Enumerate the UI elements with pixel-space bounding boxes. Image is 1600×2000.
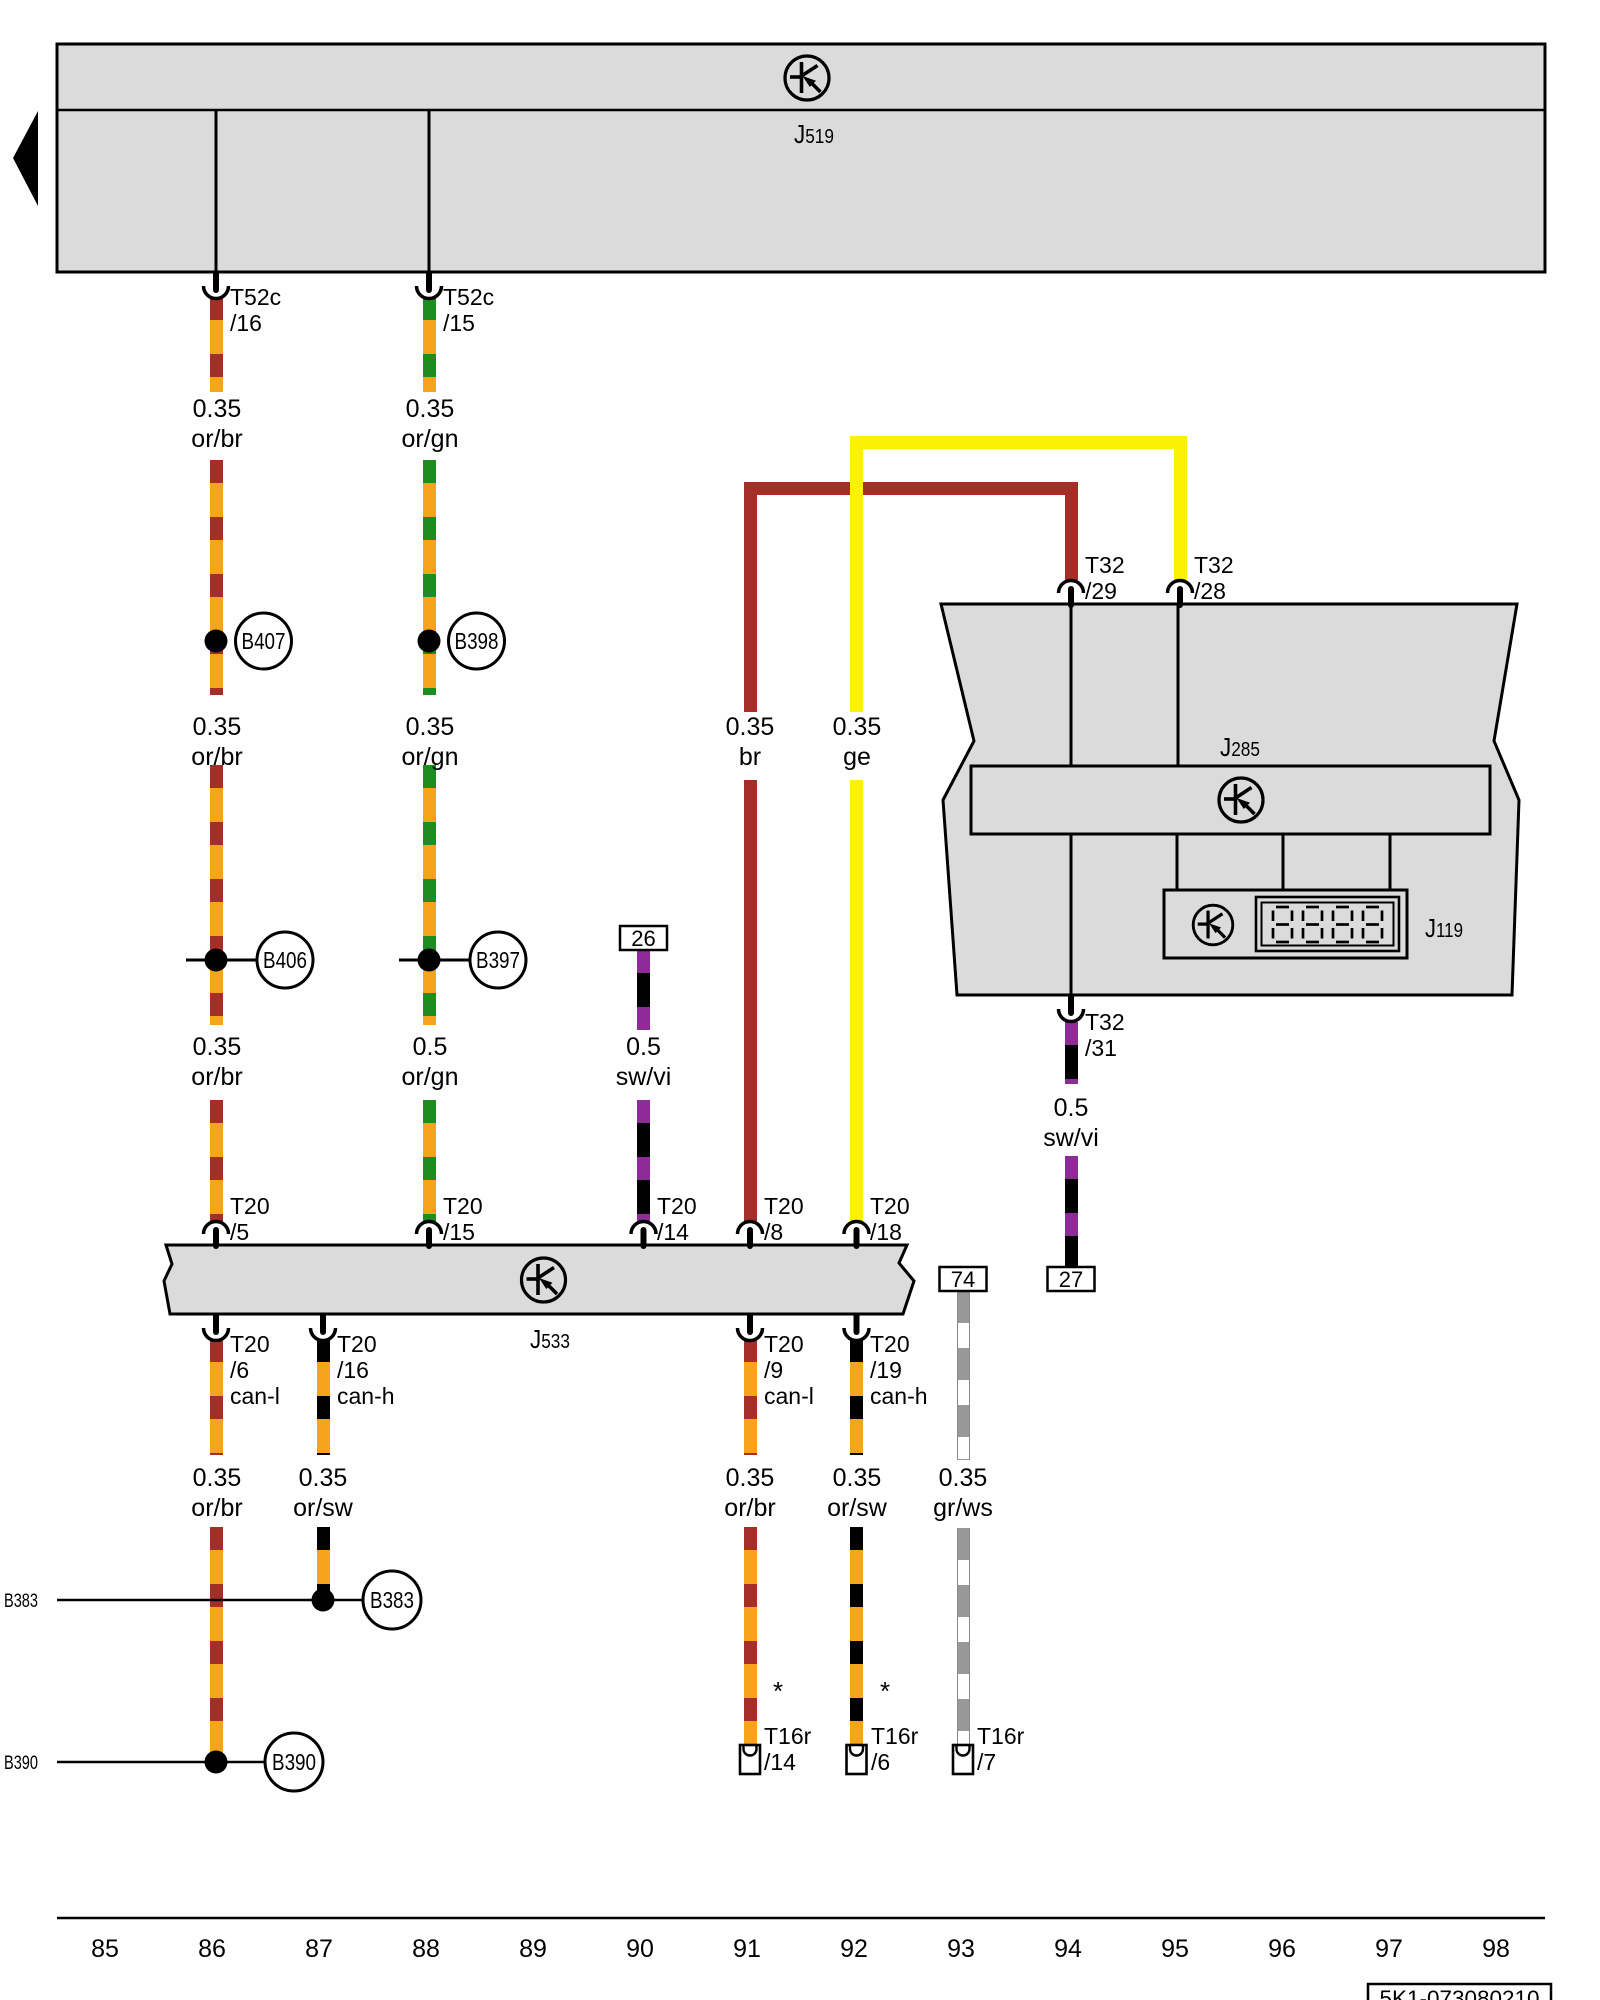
svg-text:B383: B383 [4, 1591, 38, 1612]
svg-text:/15: /15 [443, 310, 475, 336]
icon control-unit symbol J533 [522, 1258, 566, 1302]
svg-text:94: 94 [1054, 1935, 1082, 1963]
connector T20/8 [738, 1222, 763, 1250]
connector T16r/7 [953, 1745, 973, 1774]
svg-text:95: 95 [1161, 1935, 1189, 1963]
svg-text:T32: T32 [1194, 552, 1234, 578]
svg-text:B397: B397 [476, 947, 520, 973]
wire 0.35 or/gn col88 seg1 [423, 297, 436, 392]
svg-text:T20: T20 [870, 1193, 910, 1219]
wire 0.35 br vertical seg1 [744, 482, 757, 713]
svg-text:or/br: or/br [191, 1063, 242, 1091]
svg-text:T16r: T16r [871, 1723, 919, 1749]
svg-text:/29: /29 [1085, 578, 1117, 604]
svg-text:T52c: T52c [230, 284, 281, 310]
svg-text:26: 26 [631, 926, 655, 951]
junction B397 [399, 959, 470, 962]
svg-text:T32: T32 [1085, 1009, 1125, 1035]
bottom track line [57, 1917, 1545, 1920]
svg-text:or/gn: or/gn [402, 1063, 459, 1091]
wire 0.35 or/br col86 seg1 [210, 297, 223, 392]
svg-text:/6: /6 [871, 1749, 890, 1775]
svg-text:T16r: T16r [764, 1723, 812, 1749]
internal wire J285 pin28 down [1177, 604, 1180, 766]
svg-text:/14: /14 [764, 1749, 796, 1775]
wire 0.5 sw/vi col90 seg2 [637, 1100, 650, 1223]
svg-text:74: 74 [951, 1267, 975, 1292]
svg-text:/31: /31 [1085, 1035, 1117, 1061]
svg-text:or/gn: or/gn [402, 743, 459, 771]
svg-text:/16: /16 [230, 310, 262, 336]
wire 0.35 ge vertical right [1174, 436, 1187, 581]
wire 0.35 or/br col86 seg3 [210, 765, 223, 1025]
svg-text:0.35: 0.35 [193, 1033, 242, 1061]
svg-text:B390: B390 [4, 1753, 38, 1774]
connector T20/6 can-l [204, 1313, 229, 1341]
svg-text:/15: /15 [443, 1219, 475, 1245]
svg-text:0.35: 0.35 [299, 1464, 348, 1492]
wire 0.5 sw/vi col94 seg1 [1065, 1022, 1078, 1084]
junction B398 [418, 630, 441, 653]
internal wire J285 pin29 down [1070, 604, 1073, 766]
wire 0.35 or/br col86 seg4 [210, 1100, 223, 1223]
svg-text:27: 27 [1059, 1267, 1083, 1292]
display unit J119 multifunction display [1164, 890, 1407, 958]
svg-text:88: 88 [412, 1935, 440, 1963]
svg-text:or/sw: or/sw [827, 1494, 888, 1522]
svg-text:or/br: or/br [724, 1494, 775, 1522]
internal stubs to J119 [1176, 834, 1179, 891]
svg-text:91: 91 [733, 1935, 761, 1963]
svg-text:T20: T20 [443, 1193, 483, 1219]
svg-text:T20: T20 [764, 1193, 804, 1219]
terminal box 27 [1048, 1267, 1095, 1291]
svg-text:87: 87 [305, 1935, 333, 1963]
connector T20/16 can-h [311, 1313, 336, 1341]
connector T52c/15 [417, 271, 442, 299]
terminal box 26 [620, 926, 667, 950]
svg-text:T20: T20 [657, 1193, 697, 1219]
svg-text:96: 96 [1268, 1935, 1296, 1963]
icon control-unit symbol J285 [1219, 778, 1263, 822]
svg-text:0.35: 0.35 [193, 713, 242, 741]
junction B407 [205, 630, 228, 653]
svg-text:*: * [773, 1676, 783, 1706]
svg-text:or/sw: or/sw [293, 1494, 354, 1522]
direction arrow left [13, 111, 38, 206]
wire 0.35 gr/ws seg2 [957, 1528, 970, 1745]
svg-text:0.35: 0.35 [193, 395, 242, 423]
svg-text:0.5: 0.5 [413, 1033, 448, 1061]
svg-text:T20: T20 [337, 1331, 377, 1357]
svg-text:sw/vi: sw/vi [616, 1063, 672, 1091]
drawing number label 5K1-073080210 [1368, 1984, 1551, 2000]
svg-text:0.5: 0.5 [626, 1033, 661, 1061]
connector T20/9 can-l [738, 1313, 763, 1341]
svg-text:5K1-073080210: 5K1-073080210 [1380, 1986, 1540, 2000]
svg-text:or/br: or/br [191, 743, 242, 771]
connector T32/28 [1168, 581, 1193, 609]
wire 0.35 or/sw can-h seg1 [317, 1339, 330, 1455]
svg-text:0.35: 0.35 [406, 713, 455, 741]
svg-text:/18: /18 [870, 1219, 902, 1245]
wire 0.35 or/sw can-h seg2 [317, 1527, 330, 1600]
svg-text:B407: B407 [242, 628, 286, 654]
svg-text:gr/ws: gr/ws [933, 1494, 993, 1522]
icon control-unit symbol J119 [1193, 905, 1233, 945]
wire 0.35 or/gn col88 seg2 [423, 460, 436, 695]
svg-text:T20: T20 [764, 1331, 804, 1357]
svg-text:*: * [880, 1676, 890, 1706]
connector T32/29 [1059, 581, 1084, 609]
svg-text:can-h: can-h [337, 1383, 395, 1409]
svg-text:sw/vi: sw/vi [1043, 1124, 1099, 1152]
svg-text:can-h: can-h [870, 1383, 928, 1409]
svg-text:T52c: T52c [443, 284, 494, 310]
wire 0.35 or/gn col88 seg3 [423, 765, 436, 1025]
svg-text:can-l: can-l [230, 1383, 280, 1409]
connector T16r/14 [740, 1745, 760, 1774]
junction B406 [186, 959, 257, 962]
svg-text:or/br: or/br [191, 1494, 242, 1522]
svg-text:0.35: 0.35 [406, 395, 455, 423]
svg-text:/16: /16 [337, 1357, 369, 1383]
wire 0.35 or/br can-l col91 seg1 [744, 1339, 757, 1455]
connector T52c/16 [204, 271, 229, 299]
svg-text:0.35: 0.35 [726, 1464, 775, 1492]
wire 0.35 ge vertical seg2 [850, 780, 863, 1223]
svg-text:0.35: 0.35 [726, 713, 775, 741]
connector T16r/6 [847, 1745, 867, 1774]
wire drop inside J519 to T52c/15 [428, 110, 431, 271]
svg-text:B406: B406 [263, 947, 307, 973]
connector T20/19 can-h [844, 1313, 869, 1341]
svg-text:T20: T20 [870, 1331, 910, 1357]
svg-text:ge: ge [843, 743, 871, 771]
wire 0.35 br vertical seg2 [744, 780, 757, 1223]
connector T20/14 [631, 1222, 656, 1250]
svg-text:/19: /19 [870, 1357, 902, 1383]
wire 0.35 br horizontal run [744, 482, 1078, 495]
svg-text:/6: /6 [230, 1357, 249, 1383]
gateway J533 data bus diagnostic interface box [164, 1245, 914, 1314]
connector T20/5 [204, 1222, 229, 1250]
wire 0.35 or/sw can-h col92 seg2 [850, 1527, 863, 1745]
control module J519 (onboard supply control unit) box [57, 44, 1545, 272]
connector T20/15 [417, 1222, 442, 1250]
svg-text:T16r: T16r [977, 1723, 1025, 1749]
svg-text:T32: T32 [1085, 552, 1125, 578]
svg-text:/5: /5 [230, 1219, 249, 1245]
svg-text:or/br: or/br [191, 425, 242, 453]
svg-text:93: 93 [947, 1935, 975, 1963]
icon control-unit symbol J519 [785, 56, 829, 100]
wire 0.5 or/gn col88 seg4 [423, 1100, 436, 1223]
control module J285 instrument cluster box [941, 604, 1519, 995]
svg-text:can-l: can-l [764, 1383, 814, 1409]
svg-text:92: 92 [840, 1935, 868, 1963]
svg-text:B390: B390 [272, 1749, 316, 1775]
svg-text:86: 86 [198, 1935, 226, 1963]
svg-text:or/gn: or/gn [402, 425, 459, 453]
wire drop inside J519 to T52c/16 [215, 110, 218, 271]
wire 0.35 ge vertical seg1 [850, 436, 863, 713]
wire 0.35 gr/ws seg1 [957, 1291, 970, 1460]
connector T20/18 [844, 1222, 869, 1250]
svg-text:0.35: 0.35 [833, 1464, 882, 1492]
wire 0.5 sw/vi col94 seg2 [1065, 1156, 1078, 1266]
svg-text:J533: J533 [530, 1324, 570, 1354]
svg-text:85: 85 [91, 1935, 119, 1963]
svg-text:97: 97 [1375, 1935, 1403, 1963]
svg-text:90: 90 [626, 1935, 654, 1963]
svg-text:/9: /9 [764, 1357, 783, 1383]
svg-text:0.35: 0.35 [939, 1464, 988, 1492]
svg-text:T20: T20 [230, 1193, 270, 1219]
connector T32/31 [1059, 994, 1084, 1022]
J119 digital display 8888 [1256, 897, 1399, 951]
wire 0.5 sw/vi col90 seg1 [637, 950, 650, 1030]
wire 0.35 br vertical right [1065, 482, 1078, 581]
svg-text:/7: /7 [977, 1749, 996, 1775]
svg-text:0.5: 0.5 [1054, 1094, 1089, 1122]
svg-text:/8: /8 [764, 1219, 783, 1245]
svg-text:0.35: 0.35 [833, 713, 882, 741]
svg-text:/14: /14 [657, 1219, 689, 1245]
svg-text:B383: B383 [370, 1587, 414, 1613]
wire 0.35 ge horizontal run [850, 436, 1187, 449]
svg-text:B398: B398 [455, 628, 499, 654]
svg-text:98: 98 [1482, 1935, 1510, 1963]
svg-text:T20: T20 [230, 1331, 270, 1357]
wire 0.35 or/br can-l seg6 [210, 1527, 223, 1762]
wire 0.35 or/br can-l seg5 [210, 1339, 223, 1455]
wire 0.35 or/br col86 seg2 [210, 460, 223, 695]
J285 internal bus bar [971, 766, 1490, 834]
wire 0.35 or/br can-l col91 seg2 [744, 1527, 757, 1745]
wire 0.35 or/sw can-h col92 seg1 [850, 1339, 863, 1455]
svg-text:/28: /28 [1194, 578, 1226, 604]
svg-text:0.35: 0.35 [193, 1464, 242, 1492]
terminal box 74 [940, 1267, 987, 1291]
svg-text:89: 89 [519, 1935, 547, 1963]
svg-text:br: br [739, 743, 761, 771]
